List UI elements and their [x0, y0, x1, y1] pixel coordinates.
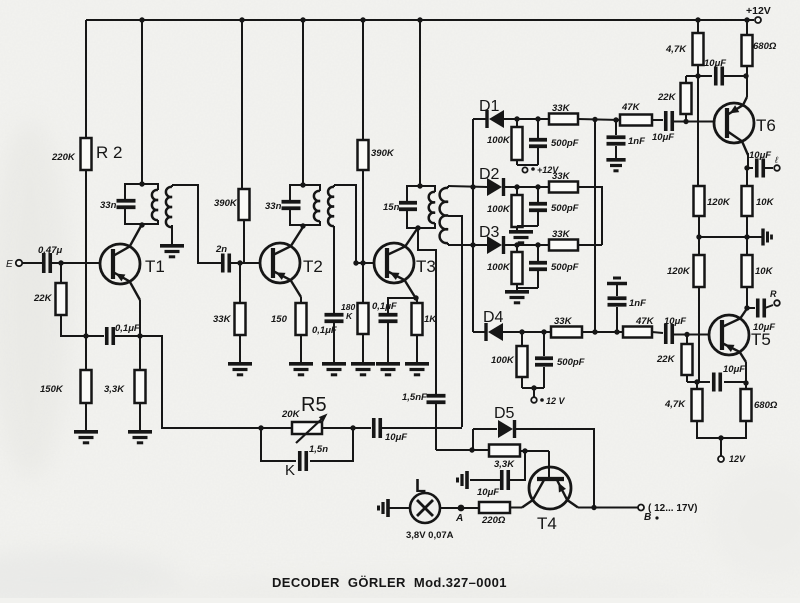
svg-text:B: B: [644, 512, 651, 523]
wire to de-emphasis branch: [140, 336, 261, 428]
wire D1-D2-D3-D4 left link: [472, 119, 474, 332]
terminal E input: [6, 259, 22, 270]
transistor T1: [100, 226, 165, 300]
ground under 0.1uF T3: [376, 364, 400, 375]
wire 33K bottom: [239, 335, 241, 362]
wire 10K lower bottom: [746, 287, 748, 308]
svg-text:0,1μF: 0,1μF: [372, 301, 397, 312]
svg-text:15n: 15n: [383, 202, 400, 213]
svg-text:10μF: 10μF: [652, 132, 674, 143]
svg-text:ℓ: ℓ: [774, 155, 778, 165]
svg-text:33K: 33K: [554, 316, 573, 327]
node 680/emitter: [743, 73, 748, 78]
wire D1 to 33K: [504, 118, 549, 120]
node 10K mid: [744, 234, 749, 239]
svg-text:500pF: 500pF: [551, 138, 579, 149]
resistor 47K sum: [623, 327, 652, 338]
wire 10K upper bottom: [746, 216, 748, 237]
svg-text:1,5nF: 1,5nF: [402, 392, 427, 403]
terminal B+: [638, 503, 697, 523]
label 390K first: [214, 198, 238, 209]
svg-text:33K: 33K: [552, 229, 571, 240]
ground under 0.1uF T2: [322, 364, 346, 375]
resistor 22K T6: [681, 83, 692, 114]
node D2/500pF: [535, 184, 540, 189]
svg-text:10μF: 10μF: [664, 316, 686, 327]
svg-text:100K: 100K: [487, 262, 511, 273]
wire long drop to 120K: [697, 76, 699, 186]
capacitor 1nF second: [608, 285, 647, 332]
resistor 100K D1: [512, 127, 523, 160]
wire 390K-1 drop: [241, 20, 243, 189]
node tank1 top: [139, 181, 144, 186]
tank1 frame: [125, 184, 158, 224]
terminal 12V bottom: [718, 454, 746, 464]
ground under secondary1: [160, 246, 184, 257]
svg-text:T3: T3: [416, 257, 436, 276]
capacitor 10uF output R: [753, 299, 775, 334]
label 10uF T4: [477, 487, 499, 498]
resistor 33K D3: [549, 240, 578, 251]
node tank1 bottom: [139, 222, 144, 227]
transistor T5: [709, 310, 771, 362]
wire base to 180K: [362, 263, 364, 303]
wire base row: [520, 450, 549, 452]
wire 33K D1 to 1nF node: [578, 119, 620, 120]
resistor 10K lower: [742, 255, 753, 287]
node D4/100K: [519, 329, 524, 334]
resistor 100K D2: [512, 195, 523, 227]
node emitter/3.3K junction: [137, 333, 142, 338]
wire 680 bottom: [746, 66, 748, 76]
svg-text:12 V: 12 V: [546, 396, 566, 406]
node R output: [744, 305, 749, 310]
wire cap to T5 base: [673, 334, 709, 336]
node 1nF-1 top: [613, 117, 618, 122]
ground sideways mid divider: [763, 229, 772, 246]
diode D3: [479, 224, 504, 254]
svg-text:100K: 100K: [491, 355, 515, 366]
wire lamp to A: [440, 507, 458, 509]
wire T1 emitter down: [139, 300, 141, 336]
wire secondary tap: [448, 216, 462, 427]
ground under 1K: [405, 364, 429, 375]
wire cap to R terminal: [765, 305, 773, 308]
wire tank2 drop from rail: [302, 20, 304, 185]
wire cap to T1 base: [51, 262, 100, 264]
capacitor 0.1uF T3 emitter: [372, 301, 398, 321]
wire A to 220: [461, 507, 479, 509]
resistor 33K T2 base lower: [235, 303, 246, 335]
svg-text:R: R: [770, 289, 777, 299]
node R5 left: [258, 425, 263, 430]
wire D4 left corner: [473, 331, 485, 333]
capacitor 33n tank2: [265, 201, 301, 212]
svg-text:10K: 10K: [756, 197, 775, 208]
label 33K D4: [554, 316, 573, 327]
node tank3 top: [417, 183, 422, 188]
resistor 100K D4: [517, 346, 528, 377]
wire D4 to 33K: [503, 331, 551, 333]
svg-text:680Ω: 680Ω: [754, 400, 778, 411]
resistor R2 220K: [81, 138, 92, 170]
svg-text:390K: 390K: [214, 198, 238, 209]
label 22K T6: [657, 92, 677, 103]
wire 100K D2 bottom: [517, 187, 538, 231]
svg-text:120K: 120K: [707, 197, 731, 208]
node base/22K junction: [58, 260, 63, 265]
inductor tank1 primary: [152, 190, 158, 220]
wire 22K top lead: [60, 263, 62, 283]
svg-text:3,8V 0,07A: 3,8V 0,07A: [406, 530, 454, 541]
wire 120K upper bottom: [698, 216, 700, 237]
node A: [455, 505, 464, 524]
wire T5 emitter down: [745, 362, 747, 383]
wire 33K D4 to sum: [582, 331, 595, 333]
node D3/500pF: [535, 242, 540, 247]
wire secondary2 top to T3 base: [334, 185, 356, 263]
svg-text:A: A: [455, 513, 463, 524]
wire 100K D4 leads: [522, 332, 544, 388]
svg-text:3,3K: 3,3K: [104, 384, 125, 395]
ground D3 network: [505, 292, 529, 303]
label 180K: [341, 302, 355, 321]
wire 22K T5 leads: [686, 335, 688, 383]
ground sideways lamp: [379, 499, 389, 517]
wire D1 left corner: [473, 118, 486, 120]
wire 390K-2 drop from rail: [362, 20, 364, 140]
svg-text:22K: 22K: [656, 354, 676, 365]
lamp L: [406, 476, 454, 541]
diode D5: [494, 405, 515, 438]
wire +12V top supply rail: [86, 19, 754, 21]
wire 220 to T4: [510, 507, 522, 509]
wire D3 to 33K: [504, 244, 549, 246]
svg-text:120K: 120K: [667, 266, 691, 277]
diode D4: [483, 309, 504, 341]
node 22K/T6 base: [683, 119, 688, 124]
resistor 150 T2 emitter: [296, 303, 307, 335]
node T5 deg junction: [694, 379, 699, 384]
svg-text:150K: 150K: [40, 384, 64, 395]
capacitor 1nF first: [607, 120, 646, 158]
wire 10K lower top: [746, 237, 748, 255]
label 100K D4: [491, 355, 515, 366]
wire 120K lower bottom long: [698, 287, 700, 382]
wire cap to L terminal: [764, 167, 773, 169]
svg-text:10μF: 10μF: [477, 487, 499, 498]
node T5 emitter row right: [743, 380, 748, 385]
resistor 10K upper: [742, 186, 753, 216]
wire divider row: [699, 236, 762, 238]
node line A / D5: [469, 447, 474, 452]
wire 3.3K to ground: [139, 403, 141, 430]
potentiometer R5 20K: [281, 394, 328, 443]
svg-text:12V: 12V: [729, 454, 746, 464]
capacitor 500pF D1: [529, 138, 579, 149]
ground D2 network: [509, 232, 533, 243]
wire 680 top to rail: [746, 20, 748, 35]
svg-text:T5: T5: [751, 330, 771, 349]
wire line A down: [435, 404, 437, 450]
svg-text:33K: 33K: [552, 103, 571, 114]
transistor T6: [714, 97, 776, 155]
wire secondary1 top to 2n row: [172, 185, 221, 263]
capacitor 0.1uF emitter bypass T1: [107, 323, 140, 345]
inductor tank2 secondary: [328, 185, 334, 226]
terminal 12V D4 network: [531, 396, 565, 406]
resistor 3.3K T4 base: [489, 445, 520, 457]
wire emitter to 0.1uF corner: [388, 298, 416, 313]
svg-text:T6: T6: [756, 116, 776, 135]
wire T3 emitter node: [413, 295, 418, 300]
transistor T4: [522, 467, 578, 533]
wire vertical bus D1 to sum: [594, 120, 596, 333]
svg-text:R 2: R 2: [96, 143, 122, 162]
resistor 47K T6 base: [620, 115, 652, 126]
node 22K T5 base: [684, 332, 689, 337]
label 3,3K T4: [494, 459, 515, 470]
wire 33K top lead: [239, 263, 241, 303]
capacitor 1.5nF: [402, 392, 446, 403]
svg-text:220K: 220K: [51, 152, 76, 163]
resistor 120K upper: [694, 186, 705, 216]
wire cap to ground: [470, 479, 501, 481]
node D2/100K: [514, 184, 519, 189]
wire T6 collector down: [747, 153, 749, 168]
svg-text:( 12... 17V): ( 12... 17V): [648, 503, 697, 514]
svg-text:10μF: 10μF: [749, 150, 771, 161]
svg-text:L: L: [415, 476, 426, 496]
node B junction: [591, 505, 596, 510]
node tank2 bottom: [300, 223, 305, 228]
label 4,7K T6: [665, 44, 687, 55]
node T3 base bias: [360, 260, 365, 265]
transistor T2: [260, 227, 323, 297]
label 120K lower: [667, 266, 691, 277]
node D3/100K: [514, 242, 519, 247]
inductor tank1 secondary: [166, 185, 172, 244]
svg-text:47K: 47K: [621, 102, 641, 113]
terminal +12V D1 network: [522, 165, 559, 175]
svg-text:E: E: [6, 259, 13, 270]
capacitor 500pF D4: [535, 357, 585, 368]
resistor 150K: [81, 370, 92, 403]
wire emitter to 1K: [416, 298, 418, 303]
capacitor 500pF D2: [529, 203, 579, 214]
resistor 100K D3: [512, 252, 523, 284]
wire secondary top to D2: [448, 186, 487, 187]
wire T2 emitter to 150: [300, 297, 302, 303]
svg-text:33K: 33K: [213, 314, 232, 325]
node top rail / T2 tank drop: [300, 17, 305, 22]
wire D5 left lead: [473, 428, 497, 430]
wire 390K-2 bottom to T3 base: [362, 170, 364, 263]
resistor 22K T5: [682, 344, 693, 375]
node 1nF-2: [614, 329, 619, 334]
capacitor 10uF T6 base: [652, 111, 674, 143]
label 680 T6: [753, 41, 777, 52]
resistor 33K D1: [549, 114, 578, 125]
node secondary top / D1 link: [470, 184, 475, 189]
svg-text:0,1μF: 0,1μF: [115, 323, 140, 334]
node tank3 bottom: [415, 225, 420, 230]
svg-text:1nF: 1nF: [629, 298, 646, 309]
svg-text:K: K: [346, 311, 353, 321]
capacitor 500pF D3: [529, 262, 579, 273]
label title: [272, 575, 507, 590]
capacitor 10uF T5 emitter: [714, 364, 746, 392]
node D4 bias: [531, 385, 536, 390]
inductor detector secondary: [440, 186, 448, 245]
svg-text:0,47μ: 0,47μ: [38, 245, 62, 256]
wire tank1 drop from rail: [141, 20, 143, 184]
wire secondary bottom to D3: [448, 244, 487, 246]
label 10K upper: [756, 197, 775, 208]
wire sum row: [595, 331, 623, 333]
wire 3.3K top: [139, 336, 141, 370]
terminal +12V supply: [746, 5, 771, 23]
label 47K sum: [635, 316, 655, 327]
node T6 output: [744, 165, 749, 170]
label 22K: [33, 293, 53, 304]
svg-text:33n: 33n: [100, 200, 117, 211]
svg-text:D3: D3: [479, 224, 500, 241]
wire bias stub: [533, 388, 535, 397]
node secondary2/T3 base: [353, 260, 358, 265]
wire 10uF branch: [509, 451, 525, 480]
wire 22K bottom to node: [61, 315, 86, 336]
wire T4 base lead: [548, 451, 550, 477]
label 150K: [40, 384, 64, 395]
capacitor 0.1uF T2 secondary bypass: [312, 315, 344, 336]
svg-text:T4: T4: [537, 514, 557, 533]
wire 120K lower top: [698, 237, 700, 255]
resistor 680 T5: [741, 389, 752, 421]
wire 1K to ground: [416, 335, 418, 362]
wire R5 right lead: [322, 427, 353, 429]
diode D1: [479, 98, 504, 128]
wire R5 left lead: [261, 427, 292, 429]
capacitor 10uF de-emphasis out: [374, 418, 408, 443]
wire 180K to ground: [362, 334, 364, 362]
wire 2n to T2 base: [230, 262, 260, 264]
wire lamp row left: [389, 507, 410, 509]
ground under 1nF first: [606, 160, 625, 171]
wire 4.7K bottom to node: [697, 65, 699, 76]
ground under 150K: [74, 432, 98, 443]
node -12V stub: [718, 435, 723, 440]
resistor 4.7K T6: [693, 33, 704, 65]
wire bottom supply row: [697, 421, 746, 438]
wire line A to 3.3K row: [436, 449, 489, 451]
node T2 base / 33K: [237, 260, 242, 265]
capacitor 2n coupling: [215, 244, 229, 273]
node sum bus: [592, 329, 597, 334]
wire cap to T6 base: [673, 121, 714, 123]
svg-text:390K: 390K: [371, 148, 395, 159]
wire T3 collector to line A: [418, 228, 436, 394]
node top rail / 390K drop: [239, 17, 244, 22]
wire 4.7K drop: [697, 20, 699, 33]
svg-text:R5: R5: [301, 394, 327, 416]
svg-text:10K: 10K: [755, 266, 774, 277]
diode D2: [479, 166, 504, 196]
resistor 390K T2 bias upper: [239, 189, 250, 220]
capacitor 33n tank1: [100, 200, 136, 211]
wire T6 emitter up: [746, 76, 748, 97]
capacitor 15n tank3: [383, 202, 417, 213]
inductor tank3 primary: [429, 192, 435, 223]
terminal output R: [770, 289, 780, 306]
label 220K: [51, 152, 76, 163]
capacitor 10uF T5 base: [664, 316, 686, 344]
resistor 120K lower: [694, 255, 705, 287]
svg-text:33n: 33n: [265, 201, 282, 212]
wire 0.1uF to ground: [333, 323, 335, 362]
resistor 390K T3 bias upper: [358, 140, 369, 170]
transistor T3: [374, 229, 436, 297]
inductor tank2 primary: [314, 191, 320, 221]
capacitor 0.47u input: [38, 245, 62, 273]
svg-text:150: 150: [271, 314, 288, 325]
svg-text:2n: 2n: [215, 244, 227, 255]
svg-text:100K: 100K: [487, 135, 511, 146]
svg-text:T1: T1: [145, 257, 165, 276]
svg-text:1,5n: 1,5n: [309, 444, 328, 455]
svg-text:220Ω: 220Ω: [481, 515, 506, 526]
tank2 frame: [290, 185, 320, 225]
wire 680 T5 top: [745, 383, 747, 389]
resistor 220 lamp: [479, 502, 510, 513]
svg-text:10μF: 10μF: [385, 432, 407, 443]
wire D2 to 33K: [504, 186, 549, 188]
ground under 3.3K: [128, 432, 152, 443]
svg-text:10μF: 10μF: [704, 58, 726, 69]
svg-text:680Ω: 680Ω: [753, 41, 777, 52]
svg-text:500pF: 500pF: [551, 203, 579, 214]
wire T4 right to B: [578, 507, 638, 509]
svg-text:+12V: +12V: [746, 5, 771, 17]
svg-text:33K: 33K: [552, 171, 571, 182]
wire 10K top: [746, 168, 748, 186]
svg-text:20K: 20K: [281, 409, 301, 420]
svg-text:47K: 47K: [635, 316, 655, 327]
wire 0.1uF T3 to ground: [387, 323, 389, 362]
tank3 frame: [407, 186, 435, 228]
svg-text:1nF: 1nF: [628, 136, 645, 147]
svg-text:3,3K: 3,3K: [494, 459, 515, 470]
terminal output L: [774, 155, 780, 171]
wire T5 collector up: [745, 308, 747, 309]
ground under 150: [289, 364, 313, 375]
resistor 33K D2: [549, 182, 578, 193]
wire D5 up link: [472, 429, 474, 450]
label 150: [271, 314, 288, 325]
ground sideways T4 base: [458, 471, 468, 489]
node tank2 top: [300, 182, 305, 187]
wire 10uF to tap line: [381, 427, 462, 429]
node D4/500pF: [541, 329, 546, 334]
node T6 feedback: [695, 73, 700, 78]
svg-text:DECODER GÖRLER Mod.327–0001: DECODER GÖRLER Mod.327–0001: [272, 575, 507, 590]
node D1/500pF: [535, 116, 540, 121]
node secondary bottom / D4 link: [470, 242, 475, 247]
label 100K D1: [487, 135, 511, 146]
node 3.3K / T4 base: [522, 448, 527, 453]
node 120K mid: [696, 234, 701, 239]
wire node row: [686, 75, 712, 77]
